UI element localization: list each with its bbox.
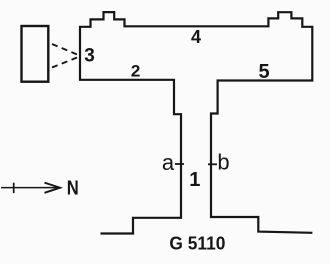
dashed sight line upper <box>52 44 80 56</box>
north arrow head <box>45 183 61 193</box>
dashed sight line lower <box>52 57 80 68</box>
door a tick <box>175 163 184 165</box>
wall: east wall, room 5 south wall, corridor east wall upper <box>211 55 312 165</box>
north arrow tail tick <box>13 183 15 193</box>
wall: corridor east wall lower and bottom-right steps <box>211 165 312 233</box>
wall: room 4 north wall and castellated niche east <box>196 12 312 55</box>
svg-text:1: 1 <box>189 169 200 191</box>
wall: room 2/3 west wall and castellated niche west <box>80 12 196 80</box>
svg-text:2: 2 <box>131 62 140 81</box>
svg-text:b: b <box>217 150 229 175</box>
stela emplacement rectangle <box>22 26 49 82</box>
wall: corridor west wall upper, step, room 2 south wall <box>127 80 181 165</box>
north arrow shaft <box>1 187 57 189</box>
svg-text:N: N <box>67 178 79 200</box>
svg-text:4: 4 <box>191 27 201 47</box>
wall: bottom-left steps and corridor west wall lower <box>101 165 182 234</box>
svg-text:5: 5 <box>258 61 269 83</box>
svg-text:G 5110: G 5110 <box>169 234 225 254</box>
svg-text:a: a <box>162 150 175 175</box>
svg-text:3: 3 <box>84 46 95 67</box>
door b tick <box>208 163 217 165</box>
